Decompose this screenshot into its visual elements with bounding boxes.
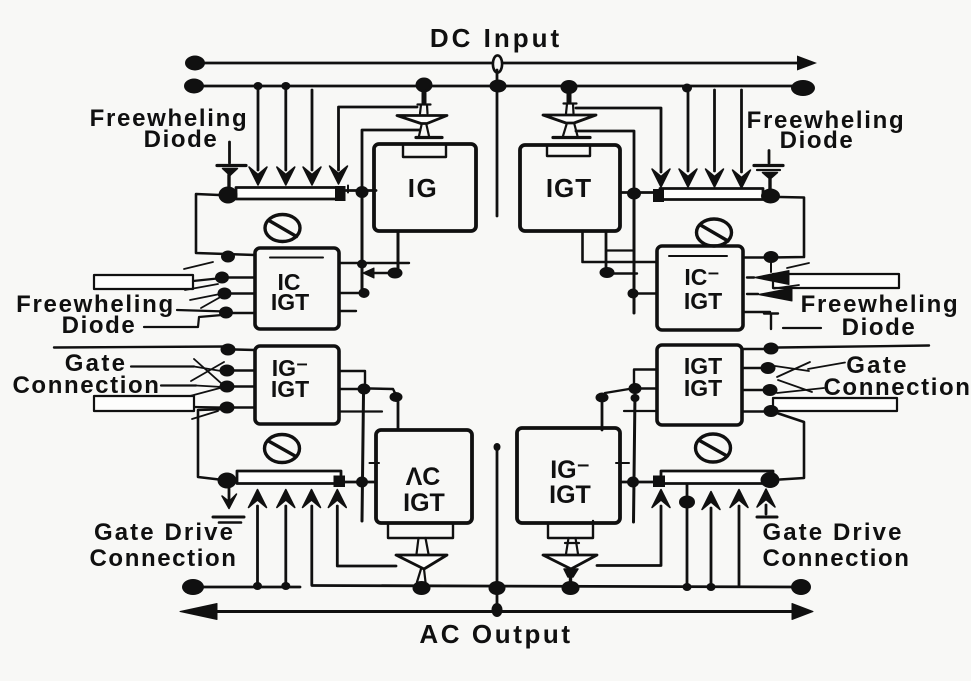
- svg-text:IG: IG: [408, 173, 438, 203]
- wire strip to U4 pin4: [194, 406, 222, 409]
- svg-text:Connection: Connection: [13, 372, 161, 399]
- node AC line right dot: [791, 579, 811, 595]
- main diode bottom-left: dish triangle: [396, 555, 447, 569]
- main diode top-right: anode bar: [553, 136, 590, 139]
- freewheeling diode symbol top-right: lead: [768, 151, 771, 164]
- main diode bottom-right: lower stem filled: [564, 569, 578, 577]
- diagonal pointer to pin3: [201, 295, 224, 308]
- main diode top-left: dish triangle: [397, 116, 447, 124]
- freewheeling diode symbol top-left: triangle: [223, 169, 238, 176]
- wire drop to arrow 1 left: [257, 90, 260, 170]
- node U3 pin4 dot: [219, 307, 233, 319]
- svg-text:IGT: IGT: [549, 481, 591, 509]
- wire inner vertical right lower: [634, 393, 636, 522]
- node junction x364 y293: [359, 288, 370, 298]
- wire arrow 4 left gate path: [339, 107, 418, 170]
- node AC rail left arrow: [180, 604, 217, 620]
- svg-text:Diode: Diode: [842, 314, 917, 341]
- node junction dot2 right: [596, 393, 609, 403]
- wire bar TR to right rail: [771, 197, 804, 258]
- arrow up 1 bottom-right: [652, 490, 670, 508]
- tick diagonal above pin2 right: [787, 263, 809, 268]
- node U6 pin1 dot: [764, 343, 779, 355]
- label pointer Diode mid-right: [783, 327, 821, 329]
- wire AC node line: [194, 586, 801, 588]
- no-symbol bottom-right: [696, 434, 731, 462]
- IGBT module box bottom-left U7: [376, 430, 472, 523]
- node center oval on DC+ rail: [493, 55, 502, 72]
- T symbol right pin4: [764, 314, 778, 330]
- wire drop to arrow 1 right: [687, 91, 690, 171]
- arrow down 3 right: [706, 169, 724, 187]
- wire dot1 to dot2 right: [605, 389, 629, 393]
- arrow up 3 bottom-right: [730, 490, 748, 508]
- arrow up 4 bottom-right: [757, 489, 775, 507]
- collector bar top-left: [236, 188, 339, 200]
- wire U5 pin4: [743, 311, 770, 313]
- svg-text:Diode: Diode: [62, 312, 137, 339]
- tick across U8 right edge: [616, 462, 629, 464]
- wire inner gate path right: [576, 131, 634, 191]
- node AC rail right arrow: [792, 604, 813, 620]
- notch of U1: [403, 146, 446, 157]
- node bar BR left cap: [653, 476, 665, 488]
- wire bar TL to IG box: [346, 189, 376, 192]
- stub U3 pin y311: [340, 310, 356, 312]
- bar under arrow4 BR: [757, 516, 777, 519]
- emitter bar bottom-left: [237, 471, 341, 484]
- freewheeling diode symbol top-right: second bar: [757, 169, 780, 171]
- wire drop to arrow 2 left: [284, 90, 287, 170]
- node U3 pin2 dot: [215, 272, 229, 284]
- svg-text:Connection: Connection: [824, 374, 971, 401]
- node bar BL left dot: [218, 473, 237, 489]
- svg-text:Connection: Connection: [763, 545, 911, 572]
- wire shaft arrow1 BR to diode: [597, 506, 661, 566]
- wire center vertical lower: [496, 446, 499, 608]
- node U3 pin3 dot: [218, 288, 232, 300]
- emitter bar bottom-right: [661, 471, 773, 484]
- arrow into U5 pin2: [754, 271, 789, 285]
- node junction x362 y482: [356, 477, 368, 488]
- main diode top-left: anode bar: [416, 136, 442, 139]
- node emitter dot right: [600, 267, 615, 278]
- wire dot1 to dot2: [370, 389, 395, 394]
- svg-text:IGT: IGT: [684, 288, 722, 314]
- node U6 pin4 dot: [764, 405, 779, 417]
- driver box mid-left upper U3: [255, 248, 339, 329]
- node junction on rail x285: [281, 82, 290, 90]
- node DC+ right arrow terminal: [797, 56, 817, 71]
- wire U1 emitter drop: [397, 231, 400, 268]
- wire shaft arrow2 BR: [710, 508, 713, 583]
- wire U5 pin y293: [638, 292, 657, 294]
- node diode BL dot: [413, 581, 431, 595]
- node U4 pin3 dot: [220, 381, 235, 393]
- tick diagonal pin3 right: [774, 285, 799, 289]
- arrow up 3 bottom-left: [303, 490, 321, 508]
- wire U3 pin line y263: [340, 262, 409, 264]
- wire center vertical upper: [496, 70, 499, 216]
- arrow down 1 right: [652, 169, 670, 187]
- svg-text:IGT: IGT: [684, 375, 722, 401]
- diagonal ticks gate left: [194, 367, 221, 372]
- node bar TL right cap: [335, 186, 346, 201]
- node diode L junction: [416, 78, 433, 93]
- svg-text:Diode: Diode: [144, 126, 219, 153]
- svg-text:Gate Drive: Gate Drive: [94, 519, 235, 546]
- wire U6 left pinA: [634, 370, 657, 384]
- node U5 pin1 dot: [764, 251, 779, 263]
- svg-text:DC Input: DC Input: [430, 23, 562, 53]
- wire right rail lower with diagonal: [777, 413, 804, 480]
- svg-text:IGT: IGT: [546, 173, 592, 203]
- arrow up 2 bottom-left: [277, 490, 295, 508]
- svg-text:IG⁻: IG⁻: [550, 456, 590, 484]
- node junction on rail x687: [682, 84, 692, 93]
- tick diagonal above pin2 left: [184, 262, 213, 269]
- wire inner vertical left mid: [361, 196, 364, 293]
- node U4 pin4 dot: [220, 402, 235, 414]
- node bar BR right dot: [761, 472, 780, 488]
- node center AC dot: [489, 581, 506, 595]
- node x687 AC dot: [683, 583, 692, 591]
- ground symbol bottom-left: bars: [213, 516, 244, 519]
- node U3 pin1 dot: [221, 251, 235, 263]
- wire shaft arrow4 BL to diode: [337, 506, 396, 566]
- IGBT module box bottom-right U8: [517, 428, 620, 523]
- node AC line left dot: [182, 579, 204, 595]
- notch of U2: [547, 147, 590, 156]
- node diode R junction: [561, 80, 578, 94]
- freewheeling diode symbol top-right: cathode bar: [754, 164, 783, 167]
- node diode BR dot: [562, 581, 580, 595]
- node emitter dot left: [388, 268, 403, 279]
- node AC rail center dot: [492, 603, 503, 617]
- main diode bottom-left: stem: [417, 538, 429, 554]
- wire U2 emitter drop B: [605, 231, 608, 267]
- node junction on rail x258: [254, 82, 263, 90]
- node dot x687 below bar: [679, 496, 695, 509]
- arrow down 4 left: [330, 166, 348, 184]
- wire shaft x687 BR: [686, 484, 689, 584]
- node junction x633 y482: [627, 477, 639, 488]
- ground symbol bottom-left: arrow: [222, 494, 237, 509]
- diagonal ticks gate right: [775, 366, 809, 371]
- label pointer Connection left: [161, 384, 196, 386]
- node junction x362 y264: [357, 260, 367, 269]
- stem below pin1 dot: [770, 263, 772, 272]
- connector strip right upper: [773, 274, 899, 288]
- IGBT module box top-left U1: [374, 144, 476, 231]
- arrow down 2 right: [679, 169, 697, 187]
- wire emitter dot to inner vertical: [614, 272, 637, 274]
- node U6 pin3 dot: [763, 384, 778, 396]
- connector strip left upper: [94, 275, 193, 289]
- inner line of U3: [270, 257, 323, 259]
- main diode top-right: lower stem trapezoid: [563, 125, 578, 137]
- arrow down 4 right: [733, 170, 751, 188]
- arrow down 2 left: [277, 167, 295, 185]
- node U6 pin2 dot: [761, 362, 776, 374]
- node junction dot1 left: [358, 384, 371, 395]
- node center junction: [490, 80, 507, 93]
- wire shaft arrow4 BR short: [765, 505, 768, 514]
- main diode top-right: stem from rail: [567, 92, 572, 102]
- diagonal ticks connection right: [777, 388, 824, 393]
- freewheeling diode symbol top-right: triangle: [763, 173, 778, 180]
- no-symbol bottom-left: [265, 435, 300, 463]
- svg-text:Gate Drive: Gate Drive: [762, 519, 903, 546]
- node DC+ left terminal: [185, 56, 205, 71]
- main diode top-right: collar: [564, 104, 577, 114]
- wire shaft arrow1 BL: [256, 506, 259, 583]
- tick diagonal pin3 left: [190, 294, 220, 300]
- wire shaft arrow2 BL: [284, 506, 287, 583]
- no-symbol top-left: [265, 215, 300, 242]
- label pointer Gate left: [131, 365, 194, 367]
- tick diagonal below pin4 left: [192, 411, 218, 419]
- wire left rail upper: [196, 194, 255, 255]
- svg-text:IGT: IGT: [403, 489, 445, 517]
- wire bar BL to U7: [345, 481, 376, 484]
- wire gate bus line left: [54, 347, 228, 348]
- tick diagonal below pin2 left: [185, 284, 218, 290]
- driver box mid-right lower U6: [657, 345, 742, 425]
- wire arrow path right gate: [576, 108, 661, 172]
- wire drop to arrow 2 right: [713, 90, 716, 171]
- node bar TL left dot: [219, 187, 238, 204]
- IGBT module box top-right U2: [520, 145, 620, 231]
- node shaft1 dot: [253, 582, 262, 590]
- node second rail left terminal: [184, 79, 204, 94]
- main diode bottom-right: dish triangle: [543, 555, 597, 569]
- svg-text:Diode: Diode: [780, 127, 855, 154]
- node junction dot2 left: [390, 392, 403, 402]
- svg-text:Connection: Connection: [90, 545, 238, 572]
- node x711 AC dot: [707, 583, 716, 591]
- svg-text:IC⁻: IC⁻: [684, 264, 719, 290]
- connector strip left lower: [94, 396, 194, 411]
- node junction x633 y293: [628, 289, 639, 299]
- node U4 pin2 dot: [220, 365, 235, 377]
- label pointer Diode mid-left: [144, 315, 222, 327]
- freewheeling diode symbol top-left: lead: [228, 142, 231, 163]
- wire strip to U3 pin2: [193, 278, 222, 281]
- driver box mid-right upper U5: [657, 246, 743, 330]
- wire dot2 to lower box right: [601, 402, 604, 430]
- node bar TR right dot: [761, 189, 780, 204]
- node bar TR left cap: [653, 189, 664, 202]
- arrow down 1 left: [249, 167, 267, 185]
- wire inner vertical left lower: [362, 394, 364, 521]
- no-symbol top-right: [697, 219, 732, 246]
- wire inner vertical right mid: [633, 197, 636, 313]
- wire bar BR to U8: [620, 481, 653, 484]
- main diode top-left: stem from rail: [422, 91, 427, 103]
- wire U2 emitter drop A: [583, 231, 658, 262]
- arrow up 2 bottom-right: [702, 492, 720, 510]
- freewheeling diode symbol top-left: cathode bar: [217, 164, 246, 167]
- collector bar top-right: [660, 189, 763, 200]
- driver box mid-left lower U4: [255, 346, 339, 424]
- tick on bar wire left: [347, 186, 349, 193]
- main diode top-left: lower stem trapezoid: [419, 125, 429, 136]
- wire inner gate path left: [362, 130, 420, 190]
- stub U4 pin y411: [339, 410, 382, 412]
- node U4 pin1 dot: [221, 344, 236, 356]
- wire link B to inner vertical: [606, 249, 634, 251]
- wire shaft arrow3 BL: [310, 506, 313, 585]
- wire emitter to inner vertical with arrowhead: [370, 272, 388, 274]
- freewheeling diode symbol top-left: stem: [227, 175, 230, 188]
- arrow up 4 bottom-left: [328, 490, 346, 508]
- wire U4 right pinB: [339, 388, 358, 390]
- node second rail right terminal: [791, 80, 815, 96]
- wire drop to arrow 3 right: [740, 90, 743, 172]
- wire DC- second rail: [196, 85, 800, 88]
- tick across U7 left edge: [370, 462, 380, 464]
- wire U4 right pinA: [339, 371, 365, 384]
- main diode top-left: collar: [418, 105, 431, 114]
- node bar BL right cap: [334, 476, 346, 488]
- svg-text:ΛC: ΛC: [406, 463, 441, 491]
- notch of U8 below: [548, 521, 593, 538]
- wire AC output rail: [186, 610, 806, 613]
- wire gate bus line right: [778, 346, 929, 348]
- node junction dot1 right: [629, 383, 642, 394]
- node small dot below dot1: [631, 394, 640, 402]
- node junction x634 on bar wire: [627, 188, 641, 200]
- node shaft2 dot: [281, 582, 290, 590]
- arrow down 3 left: [303, 167, 321, 185]
- node junction x362 on bar wire: [356, 186, 369, 198]
- label pointer Freewheling mid-left: [177, 310, 226, 312]
- main diode top-right: dish triangle: [543, 115, 596, 123]
- wire U3 pin y293: [340, 292, 364, 294]
- notch of U7 below: [388, 523, 453, 538]
- wire DC+ top rail: [196, 62, 806, 65]
- arrow into U5 pin3: [758, 288, 792, 301]
- inner line of U5: [669, 255, 727, 257]
- wire left rail lower: [198, 409, 227, 480]
- main diode bottom-right: stem: [565, 538, 579, 554]
- wire shaft arrow3 BR: [738, 506, 741, 585]
- main diode bottom-left: lower stem: [417, 569, 426, 582]
- svg-text:AC Output: AC Output: [419, 619, 572, 649]
- arrow up 1 bottom-left: [249, 490, 267, 508]
- stub U6 pin y411: [624, 410, 657, 412]
- wire bar TR to IGT box: [620, 191, 653, 194]
- wire dot2 to lower box: [397, 401, 400, 430]
- freewheeling diode symbol top-right: stem: [768, 179, 771, 189]
- connector strip right lower: [773, 398, 897, 411]
- ground symbol bottom-left: stem: [228, 488, 231, 500]
- wire U6 left pinB: [641, 387, 657, 389]
- svg-text:IGT: IGT: [271, 376, 309, 402]
- svg-text:IGT: IGT: [271, 289, 309, 315]
- wire drop to arrow 3 left: [311, 90, 314, 170]
